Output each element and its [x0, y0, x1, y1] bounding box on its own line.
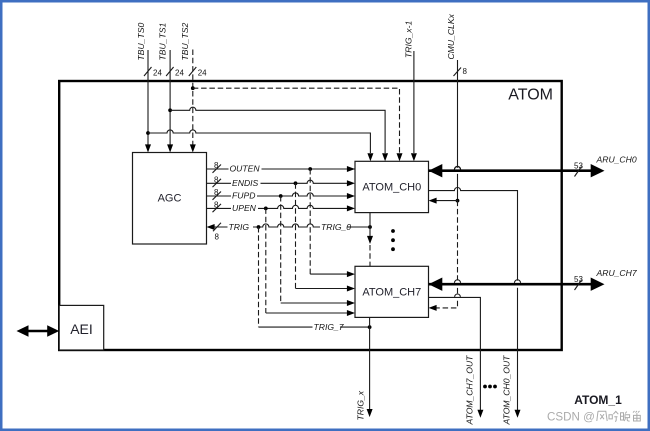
- arrow UPEN into ATOM_CH7: [347, 310, 355, 316]
- node UPEN junction: [264, 207, 268, 211]
- svg-text:AEI: AEI: [70, 321, 93, 337]
- arrow FUPD into ATOM_CH7: [347, 300, 355, 306]
- wire TBU_TS2 vertical dashed: [192, 50, 194, 146]
- bus slash 8 UPEN: [213, 200, 222, 212]
- arrow ATOM_CH7_OUT down: [477, 410, 483, 418]
- svg-text:ATOM: ATOM: [508, 87, 553, 104]
- signal label TRIG_0: [320, 222, 351, 232]
- arrow FUPD into ATOM_CH0: [347, 193, 355, 199]
- wire ATOM_CH7_OUT: [429, 297, 481, 410]
- node TBU_TS2 branch: [191, 86, 195, 90]
- svg-text:TRIG_x-1: TRIG_x-1: [404, 21, 414, 58]
- block AGC: [133, 153, 207, 245]
- wire FUPD: [207, 193, 348, 196]
- svg-text:53: 53: [574, 162, 583, 171]
- ellipsis outputs: [483, 385, 497, 389]
- bus slash 24 TBU_TS0: [144, 67, 162, 78]
- wire TBU_TS1 branch to ATOM_CH0: [170, 107, 385, 153]
- svg-text:OUTEN: OUTEN: [230, 164, 261, 174]
- arrow CMU_CLKx into ATOM_CH0: [429, 198, 437, 204]
- bus slash 24 TBU_TS1: [166, 67, 184, 78]
- svg-text:TRIG_x: TRIG_x: [356, 390, 366, 420]
- svg-text:CSDN @: CSDN @: [547, 411, 595, 424]
- svg-text:ATOM_1: ATOM_1: [574, 393, 622, 407]
- arrow OUTEN into ATOM_CH0: [347, 166, 355, 172]
- bus slash 8 OUTEN: [213, 161, 222, 173]
- wire UPEN dashed down: [265, 208, 267, 313]
- signal label FUPD: [231, 191, 257, 201]
- wire TRIG_7 horizontal: [259, 326, 370, 328]
- arrow TBU_TS0 into AGC: [145, 144, 151, 152]
- arrow TBU_TS1 into AGC: [167, 144, 173, 152]
- wire TRIG / TRIG_0: [215, 224, 371, 227]
- svg-text:ENDIS: ENDIS: [232, 178, 259, 188]
- wire CMU_CLKx dashed down to ATOM_CH7: [436, 201, 458, 308]
- bus slash 8 FUPD: [213, 188, 222, 200]
- svg-text:24: 24: [153, 69, 162, 78]
- node TBU_TS1 branch: [168, 108, 172, 112]
- arrow ARU_CH7 outward: [591, 278, 605, 291]
- node TBU_TS0 branch: [146, 131, 150, 135]
- node CMU_CLKx junction: [456, 199, 460, 203]
- wire UPEN to ATOM_CH7: [266, 312, 347, 314]
- arrow CMU_CLKx into ATOM_CH7: [429, 305, 437, 311]
- arrow ATOM_CH0_OUT down: [515, 410, 521, 418]
- ellipsis channels between CH0 and CH7: [391, 229, 395, 251]
- node FUPD junction: [279, 194, 283, 198]
- arrow ARU_CH0 into ATOM_CH0: [429, 164, 443, 177]
- bus slash 53 ARU_CH7: [574, 275, 583, 290]
- svg-text:TBU_TS2: TBU_TS2: [180, 23, 190, 61]
- wire UPEN: [207, 205, 348, 208]
- arrow AEI left: [17, 325, 29, 337]
- arrow TBU_TS1 into ATOM_CH0: [382, 153, 388, 161]
- wire FUPD dashed down: [280, 196, 282, 303]
- arrow ARU_CH0 outward: [591, 164, 605, 177]
- wire AEI bidirectional: [26, 330, 50, 333]
- svg-text:ATOM_CH7: ATOM_CH7: [362, 287, 421, 299]
- wire FUPD to ATOM_CH7: [281, 302, 347, 304]
- arrow ENDIS into ATOM_CH7: [347, 286, 355, 292]
- node TRIG_0 junction: [368, 225, 372, 229]
- svg-text:ARU_CH0: ARU_CH0: [596, 155, 637, 165]
- hop ATOM_CH0_OUT over ARU_CH7: [514, 280, 520, 283]
- wire OUTEN dashed down: [309, 169, 311, 274]
- wire ENDIS dashed down: [295, 183, 297, 288]
- wire TRIG chain dashed to ATOM_CH7: [369, 245, 371, 266]
- svg-text:8: 8: [214, 175, 219, 184]
- svg-text:TRIG_0: TRIG_0: [321, 222, 351, 232]
- svg-text:ATOM_CH7_OUT: ATOM_CH7_OUT: [465, 355, 475, 426]
- svg-text:ATOM_CH0_OUT: ATOM_CH0_OUT: [502, 355, 512, 426]
- wire ENDIS: [207, 180, 348, 183]
- node OUTEN junction: [308, 167, 312, 171]
- bus slash 53 ARU_CH0: [574, 162, 583, 177]
- wire CMU_CLKx to ATOM_CH0: [436, 200, 458, 202]
- svg-text:8: 8: [215, 233, 220, 242]
- arrow TRIG_x-1 into ATOM_CH0: [411, 153, 417, 161]
- svg-text:24: 24: [198, 69, 207, 78]
- svg-text:AGC: AGC: [158, 193, 182, 205]
- svg-text:TBU_TS0: TBU_TS0: [136, 23, 146, 61]
- node ENDIS junction: [294, 181, 298, 185]
- bus slash 8 ENDIS: [213, 175, 222, 187]
- arrow AEI right: [47, 325, 59, 337]
- node TRIG_7 junction: [368, 325, 372, 329]
- wire TRIG_0 chain from ATOM_CH0 bottom: [369, 213, 371, 237]
- bus slash 24 TBU_TS2: [189, 67, 207, 78]
- arrow TBU_TS0 into ATOM_CH0: [367, 153, 373, 161]
- wire ARU_CH0 thick: [429, 169, 592, 172]
- arrow TRIG into AGC: [207, 224, 215, 230]
- hop ARU_CH0 over CMU_CLKx: [454, 166, 460, 169]
- signal label TRIG: [228, 222, 254, 232]
- arrow ARU_CH7 into ATOM_CH7: [429, 278, 443, 291]
- svg-text:TRIG: TRIG: [229, 222, 250, 232]
- arrow UPEN into ATOM_CH0: [347, 205, 355, 211]
- bus slash 8 TRIG: [213, 223, 221, 242]
- arrow TBU_TS2 into AGC: [190, 144, 196, 152]
- svg-text:TBU_TS1: TBU_TS1: [158, 23, 168, 61]
- signal label UPEN: [231, 203, 258, 213]
- hop ARU_CH7 over CMU_CLKx: [454, 280, 460, 283]
- svg-text:ATOM_CH0: ATOM_CH0: [362, 182, 421, 194]
- signal label TRIG_7: [313, 322, 345, 332]
- wire ATOM_CH0_OUT: [429, 188, 518, 411]
- arrow TRIG chain down: [367, 236, 373, 244]
- svg-text:CMU_CLKx: CMU_CLKx: [446, 13, 456, 59]
- arrow ENDIS into ATOM_CH0: [347, 180, 355, 186]
- svg-text:8: 8: [463, 67, 468, 76]
- wire TRIG_x from ATOM_CH7 bottom: [369, 317, 371, 409]
- arrow OUTEN into ATOM_CH7: [347, 271, 355, 277]
- svg-text:8: 8: [214, 200, 219, 209]
- wire TRIG_x-1 vertical: [413, 51, 415, 153]
- wire ARU_CH7 thick: [429, 283, 592, 286]
- wire TBU_TS0 branch to ATOM_CH0: [148, 130, 370, 153]
- module ATOM boundary: [59, 81, 562, 350]
- svg-text:53: 53: [574, 275, 583, 284]
- signal label ENDIS: [231, 178, 261, 188]
- signal label OUTEN: [229, 164, 262, 174]
- block ATOM_CH7: [355, 266, 429, 317]
- block ATOM_CH0: [355, 161, 429, 212]
- wire TBU_TS0 vertical: [147, 50, 149, 145]
- wire OUTEN: [207, 168, 356, 170]
- block AEI: [59, 305, 103, 350]
- wire ENDIS to ATOM_CH7: [296, 288, 348, 290]
- node TRIG junction: [257, 225, 261, 229]
- wire TBU_TS1 vertical: [169, 50, 171, 145]
- svg-text:8: 8: [214, 188, 219, 197]
- svg-text:TRIG_7: TRIG_7: [314, 322, 345, 332]
- svg-text:FUPD: FUPD: [232, 191, 255, 201]
- arrow TBU_TS2 into ATOM_CH0: [397, 153, 403, 161]
- svg-text:UPEN: UPEN: [232, 203, 257, 213]
- svg-text:8: 8: [214, 161, 219, 170]
- svg-text:ARU_CH7: ARU_CH7: [596, 268, 638, 278]
- bus slash 8 CMU_CLKx: [454, 67, 468, 76]
- wire CMU_CLKx vertical: [457, 60, 459, 201]
- svg-text:24: 24: [175, 69, 184, 78]
- wire OUTEN to ATOM_CH7: [310, 273, 347, 275]
- wire TBU_TS2 branch dashed to ATOM_CH0: [193, 88, 400, 153]
- wire TRIG dashed down to TRIG_7: [258, 227, 260, 327]
- arrow TRIG_x down: [367, 409, 373, 417]
- watermark: [547, 411, 640, 424]
